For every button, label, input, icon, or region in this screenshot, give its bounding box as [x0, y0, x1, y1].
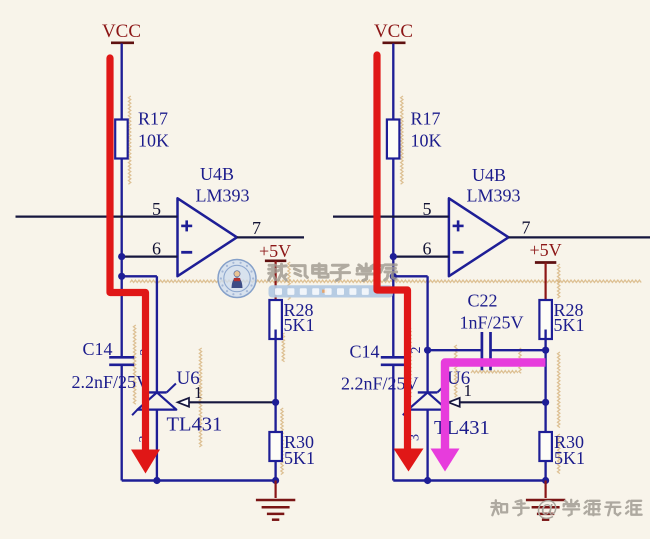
- svg-text:@: @: [536, 496, 558, 521]
- svg-text:U4B: U4B: [472, 165, 506, 185]
- svg-text:+5V: +5V: [530, 240, 562, 260]
- svg-text:1: 1: [464, 381, 473, 400]
- svg-text:6: 6: [152, 239, 161, 259]
- svg-text:C22: C22: [468, 291, 498, 311]
- svg-text:U4B: U4B: [200, 164, 234, 184]
- svg-text:C14: C14: [350, 342, 380, 362]
- svg-text:7: 7: [522, 218, 531, 238]
- svg-text:R17: R17: [411, 109, 441, 129]
- svg-text:VCC: VCC: [374, 21, 413, 42]
- svg-text:7: 7: [252, 218, 261, 238]
- svg-text:2.2nF/25V: 2.2nF/25V: [72, 372, 150, 392]
- svg-text:1: 1: [194, 383, 203, 402]
- svg-text:+5V: +5V: [259, 241, 291, 261]
- svg-text:5: 5: [423, 199, 432, 219]
- svg-text:VCC: VCC: [102, 21, 141, 42]
- svg-text:5K1: 5K1: [284, 315, 315, 335]
- svg-text:10K: 10K: [411, 131, 442, 151]
- svg-text:R17: R17: [138, 109, 168, 129]
- svg-text:TL431: TL431: [167, 414, 223, 436]
- svg-text:5K1: 5K1: [554, 315, 585, 335]
- svg-text:LM393: LM393: [196, 186, 250, 206]
- svg-text:5: 5: [152, 199, 161, 219]
- svg-text:10K: 10K: [138, 131, 169, 151]
- svg-text:1nF/25V: 1nF/25V: [460, 313, 524, 333]
- svg-text:LM393: LM393: [467, 186, 521, 206]
- svg-text:6: 6: [423, 239, 432, 259]
- svg-text:5K1: 5K1: [284, 448, 315, 468]
- svg-text:2: 2: [409, 347, 424, 354]
- svg-text:C14: C14: [83, 339, 113, 359]
- svg-text:5K1: 5K1: [554, 448, 585, 468]
